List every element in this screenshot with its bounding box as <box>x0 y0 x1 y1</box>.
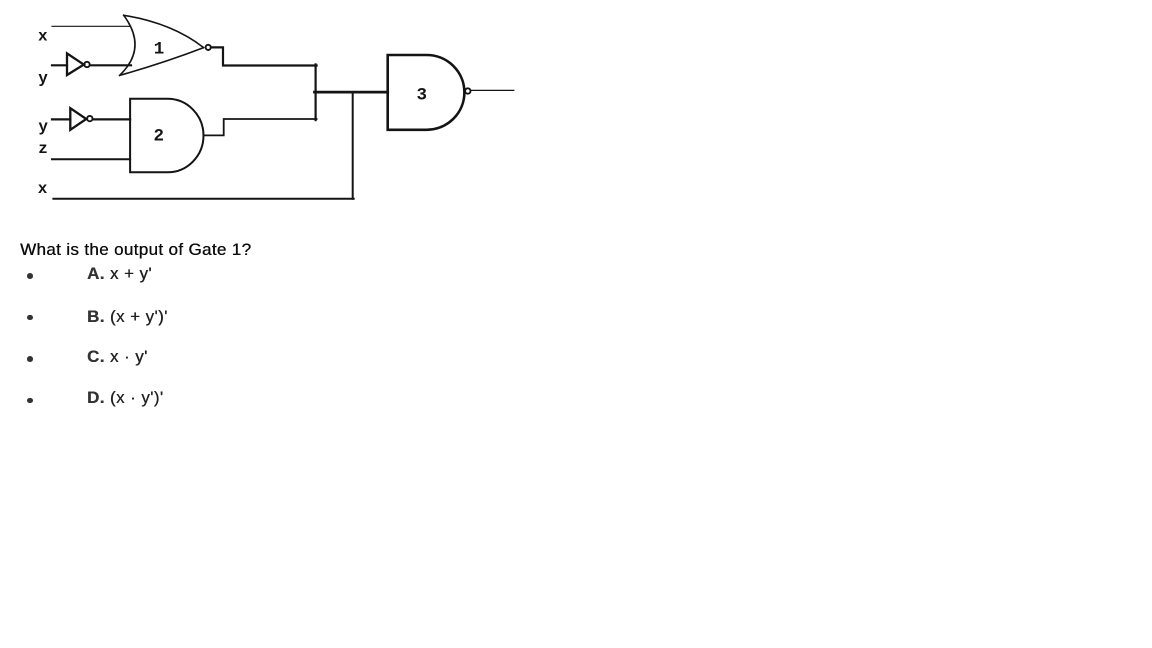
svg-text:2: 2 <box>154 126 165 146</box>
svg-text:z: z <box>38 140 48 158</box>
AND gate 2 body <box>130 99 203 173</box>
option A <box>87 264 152 284</box>
gate 1 output bubble <box>206 45 211 50</box>
svg-text:x: x <box>38 28 48 46</box>
wire: bottom x input line <box>53 198 353 200</box>
wire: bus to NAND gate 3 input <box>315 91 388 94</box>
wire: inverter output to AND gate 2 <box>93 118 131 120</box>
wire: input x to OR gate 1 <box>52 25 131 27</box>
inverter bubble <box>87 116 92 121</box>
wire: lower y input to inverter <box>52 118 70 120</box>
inverter (NOT gate) on y input of gate 2 <box>70 108 86 130</box>
wire: gate 3 output <box>471 89 514 91</box>
option C bullet <box>27 356 33 362</box>
svg-text:y: y <box>38 118 48 136</box>
inverter bubble <box>84 62 89 67</box>
option D <box>87 388 163 408</box>
junction bus vertical <box>315 64 317 120</box>
NOR gate 1 body <box>120 15 204 75</box>
wire: branch down to x feedback line <box>352 92 354 199</box>
gate 3 output bubble <box>465 88 470 93</box>
svg-text:3: 3 <box>416 86 427 106</box>
question text <box>20 240 251 260</box>
svg-text:1: 1 <box>154 39 165 59</box>
option A bullet <box>27 273 33 279</box>
NAND gate 3 body <box>388 55 465 130</box>
option B bullet <box>27 315 33 321</box>
option C <box>87 347 148 367</box>
wire: input y to inverter <box>52 64 67 66</box>
svg-text:y: y <box>38 69 48 87</box>
wire: gate 1 output to junction bus <box>211 47 317 65</box>
wire: gate 2 output to junction bus <box>204 119 317 135</box>
option D bullet <box>27 398 33 404</box>
option B <box>87 307 168 327</box>
svg-text:x: x <box>38 180 48 198</box>
wire: inverter output to OR gate 1 <box>90 64 131 66</box>
wire: input z to AND gate 2 <box>52 158 130 160</box>
inverter (NOT gate) on y input of gate 1 <box>67 53 84 75</box>
